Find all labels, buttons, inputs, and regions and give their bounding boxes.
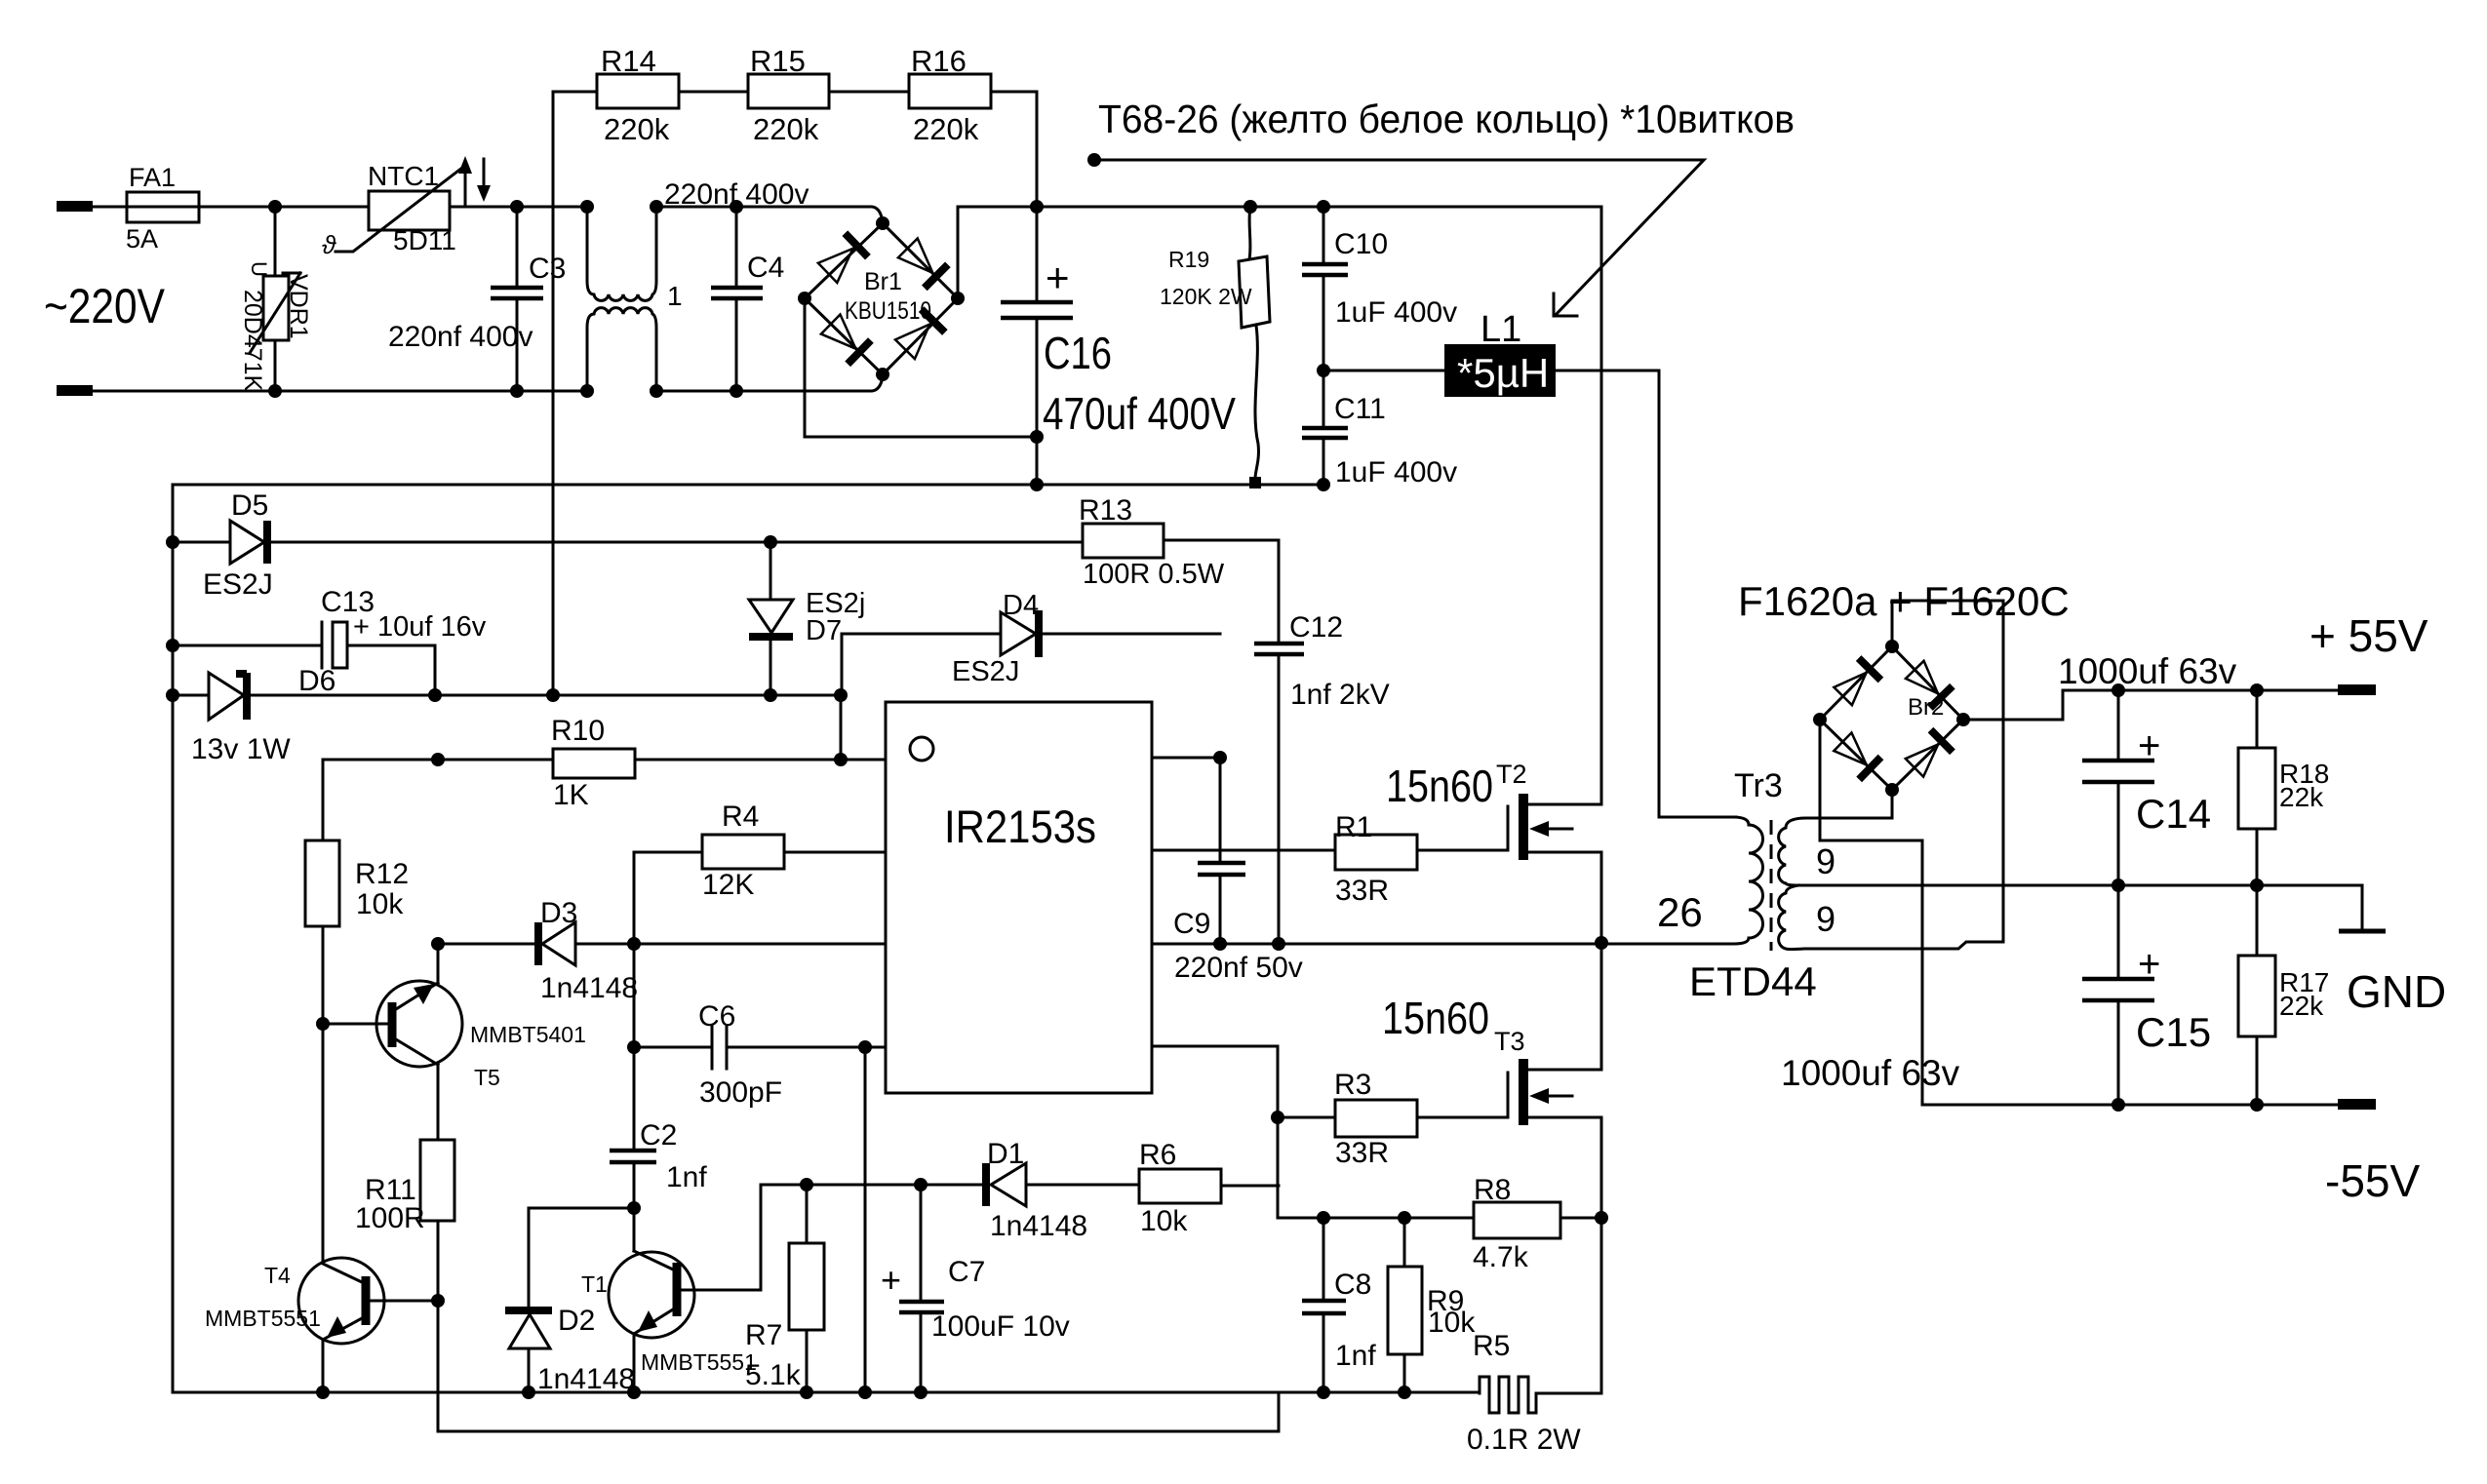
svg-text:220k: 220k	[913, 112, 979, 146]
svg-text:GND: GND	[2347, 966, 2446, 1017]
svg-text:+: +	[881, 1260, 901, 1300]
svg-text:1nf 2kV: 1nf 2kV	[1290, 679, 1390, 711]
capacitor C3	[516, 207, 519, 391]
svg-text:D6: D6	[298, 665, 336, 697]
svg-text:D1: D1	[987, 1138, 1024, 1170]
wire gate row to R8 row	[1278, 1217, 1601, 1220]
capacitor C9	[1219, 758, 1222, 944]
resistor R17	[2256, 885, 2259, 1105]
svg-text:R10: R10	[551, 715, 605, 747]
svg-text:120K 2W: 120K 2W	[1160, 284, 1252, 309]
capacitor C2	[610, 1151, 656, 1162]
svg-text:Br1: Br1	[864, 268, 902, 295]
wire bottom rail	[173, 1391, 1480, 1394]
wire left vertical bus	[172, 485, 175, 1392]
svg-text:9: 9	[1816, 841, 1836, 881]
wire Vs line	[1152, 943, 1601, 946]
resistor R15	[748, 74, 829, 108]
wire secondary top to Br2 bottom	[1891, 790, 1894, 818]
svg-text:22k: 22k	[2279, 991, 2324, 1021]
resistor R16	[909, 74, 991, 108]
transistor T5	[376, 981, 462, 1067]
svg-text:+ 10uf 16v: + 10uf 16v	[353, 611, 487, 643]
svg-text:MMBT5401: MMBT5401	[470, 1022, 586, 1047]
svg-text:Tr3: Tr3	[1734, 767, 1783, 804]
svg-text:R16: R16	[911, 44, 967, 78]
svg-text:33R: 33R	[1335, 875, 1389, 907]
resistor R3	[1278, 1116, 1508, 1119]
svg-text:R4: R4	[722, 801, 759, 833]
transistor T2 mosfet	[1507, 806, 1510, 850]
transistor T1	[609, 1252, 694, 1338]
zener D6	[209, 673, 244, 720]
svg-text:C16: C16	[1044, 328, 1112, 378]
svg-text:R19: R19	[1168, 247, 1209, 272]
wire LO pin	[1152, 1046, 1278, 1218]
svg-text:C9: C9	[1173, 908, 1210, 940]
capacitor C7	[920, 1185, 923, 1392]
svg-text:R3: R3	[1334, 1069, 1371, 1101]
svg-text:C8: C8	[1334, 1269, 1371, 1301]
varistor VDR1	[263, 276, 289, 340]
bridge rectifier Br1	[805, 223, 958, 374]
svg-text:R14: R14	[601, 44, 656, 78]
resistor R5 shunt comb	[1480, 1377, 1601, 1413]
svg-text:ϑ: ϑ	[322, 230, 336, 259]
capacitor C15	[2117, 885, 2120, 1105]
wire R14-R15	[679, 91, 748, 94]
resistor R19	[1249, 207, 1250, 259]
svg-text:220nf 50v: 220nf 50v	[1174, 952, 1303, 984]
wire minus55 rail	[1820, 720, 2341, 1105]
svg-text:300pF: 300pF	[699, 1076, 782, 1109]
svg-text:5D11: 5D11	[393, 225, 456, 255]
svg-text:VDR1: VDR1	[285, 274, 312, 339]
svg-text:1nf: 1nf	[1335, 1340, 1376, 1372]
capacitor C8	[1322, 1218, 1325, 1392]
svg-text:U: U	[247, 261, 271, 277]
wire R13 right to C12	[1164, 540, 1279, 644]
zener D2	[528, 1208, 531, 1392]
thermistor NTC1	[369, 191, 450, 230]
wire COM drop	[864, 1047, 867, 1392]
svg-text:R6: R6	[1139, 1139, 1176, 1171]
svg-text:T2: T2	[1496, 760, 1527, 789]
ground	[2339, 929, 2386, 934]
svg-text:+: +	[2138, 724, 2160, 767]
svg-text:KBU1510: KBU1510	[845, 297, 931, 325]
svg-text:33R: 33R	[1335, 1137, 1389, 1169]
svg-text:*5µH: *5µH	[1457, 350, 1549, 396]
svg-text:C7: C7	[948, 1256, 985, 1288]
svg-text:R5: R5	[1473, 1330, 1510, 1362]
svg-text:D4: D4	[1003, 590, 1039, 621]
wire top AC rail right part	[656, 207, 883, 222]
svg-text:Br2: Br2	[1908, 694, 1944, 721]
svg-text:0.1R 2W: 0.1R 2W	[1467, 1424, 1581, 1456]
terminal plus55	[2338, 684, 2376, 695]
capacitor C10	[1322, 207, 1325, 371]
svg-text:15n60: 15n60	[1386, 761, 1493, 811]
wire R5 right riser	[1600, 1218, 1603, 1393]
diode D3	[438, 943, 886, 946]
capacitor C14	[2117, 690, 2120, 885]
svg-text:220k: 220k	[753, 112, 819, 146]
svg-text:ES2J: ES2J	[952, 656, 1019, 687]
wire top AC rail	[92, 206, 587, 209]
wire T4 base riser	[437, 1301, 440, 1431]
wire T5 base to T4 collector	[322, 1024, 325, 1264]
svg-text:13v 1W: 13v 1W	[191, 733, 291, 765]
svg-text:C15: C15	[2136, 1009, 2211, 1055]
transformer Tr3 primary	[1601, 817, 1763, 944]
svg-text:C14: C14	[2136, 791, 2211, 837]
svg-text:1n4148: 1n4148	[540, 972, 638, 1004]
wire T68 pointer	[1094, 160, 1704, 315]
svg-text:L1: L1	[1480, 309, 1521, 350]
wire R12 top corner	[322, 760, 325, 840]
svg-text:C11: C11	[1334, 393, 1386, 425]
svg-text:C4: C4	[747, 252, 784, 284]
svg-text:D7: D7	[806, 615, 842, 646]
svg-text:R13: R13	[1079, 494, 1132, 527]
diode D7	[770, 542, 772, 695]
svg-text:IR2153s: IR2153s	[944, 801, 1096, 852]
inductor choke bottom winding	[587, 308, 656, 390]
resistor R18	[2256, 690, 2259, 885]
svg-text:MMBT5551: MMBT5551	[205, 1306, 321, 1331]
capacitor C12	[1278, 654, 1281, 944]
svg-text:D2: D2	[558, 1305, 595, 1337]
transistor T3 mosfet	[1507, 1073, 1510, 1117]
resistor R8	[1474, 1202, 1560, 1238]
wire plus55 rail	[1963, 690, 2341, 720]
transformer Tr3 secondary bottom	[1779, 885, 2003, 950]
svg-text:22k: 22k	[2279, 782, 2324, 812]
wire bridge plus output to top rail	[958, 207, 1601, 298]
wire bridge minus to C16 bottom	[805, 298, 1037, 437]
wire VDR1 branch	[274, 207, 277, 391]
capacitor C11	[1322, 371, 1325, 485]
wire R16 to C16 top	[991, 92, 1037, 207]
wire minus line B	[173, 484, 1323, 487]
wire R14 left drop	[552, 92, 555, 695]
wire T3 drain from Vs node	[1600, 944, 1603, 1070]
diode D5	[173, 541, 1083, 544]
inductor choke top winding	[587, 208, 656, 300]
transformer Tr3 core	[1770, 820, 1773, 951]
svg-text:1000uf 63v: 1000uf 63v	[1781, 1053, 1960, 1093]
terminal minus55	[2338, 1099, 2376, 1110]
arrow up	[464, 171, 467, 204]
svg-text:ETD44: ETD44	[1689, 958, 1817, 1004]
svg-text:D3: D3	[540, 897, 577, 929]
wire Vcc drop to pin1	[840, 695, 843, 760]
transformer Tr3 secondary top	[1779, 818, 1892, 885]
svg-text:-55V: -55V	[2325, 1155, 2420, 1206]
svg-text:15n60: 15n60	[1382, 993, 1489, 1043]
svg-text:10k: 10k	[1140, 1205, 1188, 1237]
svg-text:C12: C12	[1289, 611, 1343, 644]
svg-text:C2: C2	[640, 1119, 677, 1152]
transistor T4	[298, 1258, 384, 1344]
svg-text:R15: R15	[750, 44, 806, 78]
svg-text:20D471K: 20D471K	[239, 290, 266, 392]
svg-text:1uF 400v: 1uF 400v	[1335, 296, 1457, 329]
wire D2 top to C2 node	[529, 1207, 634, 1210]
svg-text:+ 55V: + 55V	[2309, 610, 2428, 661]
wire Vb pin to D4/C9 node	[1152, 757, 1220, 760]
capacitor C16	[1036, 207, 1039, 485]
fuse FA1	[127, 192, 199, 222]
svg-text:10k: 10k	[356, 888, 404, 920]
IC U1 IR2153s	[886, 702, 1152, 1093]
arrow down	[483, 159, 486, 187]
svg-text:100uF 10v: 100uF 10v	[931, 1310, 1070, 1343]
svg-text:5.1k: 5.1k	[745, 1359, 802, 1391]
resistor R4	[634, 851, 886, 854]
svg-text:220nf 400v: 220nf 400v	[388, 321, 533, 353]
svg-text:T1: T1	[581, 1271, 608, 1297]
svg-text:1uF 400v: 1uF 400v	[1335, 456, 1457, 488]
resistor R13	[1083, 524, 1164, 558]
svg-text:26: 26	[1657, 889, 1703, 935]
svg-text:12K: 12K	[702, 869, 754, 901]
svg-text:F1620a + F1620C: F1620a + F1620C	[1738, 578, 2070, 624]
svg-text:C10: C10	[1334, 228, 1388, 260]
svg-text:1n4148: 1n4148	[990, 1210, 1087, 1242]
svg-text:220k: 220k	[604, 112, 670, 146]
wire Vcc rail	[173, 694, 841, 697]
svg-text:R7: R7	[745, 1319, 782, 1351]
svg-text:T5: T5	[474, 1065, 500, 1090]
resistor R12	[305, 840, 339, 926]
capacitor C4	[735, 207, 738, 391]
capacitor C6	[634, 1046, 886, 1049]
svg-text:5A: 5A	[126, 224, 158, 254]
wire R4 corner down	[633, 852, 636, 1151]
svg-text:100R: 100R	[355, 1202, 425, 1234]
resistor R14	[553, 91, 597, 94]
svg-text:~220V: ~220V	[44, 279, 166, 333]
wire T1 base to R7 node	[761, 1185, 984, 1290]
svg-text:FA1: FA1	[129, 163, 176, 192]
svg-text:C6: C6	[698, 1000, 735, 1033]
wire L1 output	[1556, 371, 1736, 817]
wire R15-R16	[829, 91, 909, 94]
diode D1	[991, 1163, 1026, 1206]
diode D4	[842, 634, 1220, 695]
svg-text:1: 1	[667, 281, 683, 311]
svg-text:470uf 400V: 470uf 400V	[1043, 388, 1236, 439]
svg-text:D5: D5	[231, 489, 268, 522]
svg-text:1n4148: 1n4148	[537, 1363, 635, 1395]
wire bottom loop line	[438, 1392, 1279, 1431]
bridge rectifier Br2	[1820, 646, 1963, 790]
svg-text:MMBT5551: MMBT5551	[641, 1349, 757, 1375]
svg-text:100R 0.5W: 100R 0.5W	[1083, 559, 1225, 590]
svg-text:9: 9	[1816, 899, 1836, 939]
wire T5 top to D3 node	[437, 944, 440, 983]
resistor R9	[1403, 1218, 1406, 1392]
svg-text:10k: 10k	[1428, 1307, 1476, 1339]
wire secondary bottom to Br2 top	[1892, 601, 2003, 942]
svg-text:+: +	[1046, 254, 1070, 300]
inductor L1	[1323, 370, 1444, 372]
svg-text:R8: R8	[1474, 1174, 1511, 1206]
wire bottom AC rail	[92, 376, 883, 391]
capacitor C13	[173, 645, 435, 695]
svg-text:T4: T4	[264, 1263, 291, 1288]
svg-text:1nf: 1nf	[666, 1161, 707, 1193]
resistor R1	[1152, 849, 1508, 852]
svg-text:NTC1: NTC1	[368, 161, 439, 191]
svg-text:ES2J: ES2J	[203, 568, 273, 601]
svg-text:T3: T3	[1494, 1027, 1525, 1056]
resistor R11	[420, 1140, 454, 1221]
svg-text:+: +	[2138, 943, 2160, 986]
terminal input line2	[57, 385, 93, 396]
resistor R6	[1139, 1169, 1221, 1203]
resistor R7	[806, 1185, 809, 1392]
svg-text:R12: R12	[355, 858, 409, 890]
resistor R10	[323, 759, 553, 762]
wire GND bus	[1798, 885, 2362, 929]
svg-text:4.7k: 4.7k	[1473, 1241, 1529, 1273]
wire T5 bottom to R11	[437, 1065, 440, 1140]
svg-text:R1: R1	[1335, 811, 1372, 843]
svg-text:T68-26 (желто белое кольцо) *1: T68-26 (желто белое кольцо) *10витков	[1098, 97, 1795, 141]
wire T2 drain from top rail	[1600, 207, 1603, 804]
svg-text:1K: 1K	[553, 779, 589, 811]
svg-text:C3: C3	[529, 253, 566, 285]
terminal input line1	[57, 201, 93, 212]
svg-text:1000uf 63v: 1000uf 63v	[2058, 651, 2237, 691]
